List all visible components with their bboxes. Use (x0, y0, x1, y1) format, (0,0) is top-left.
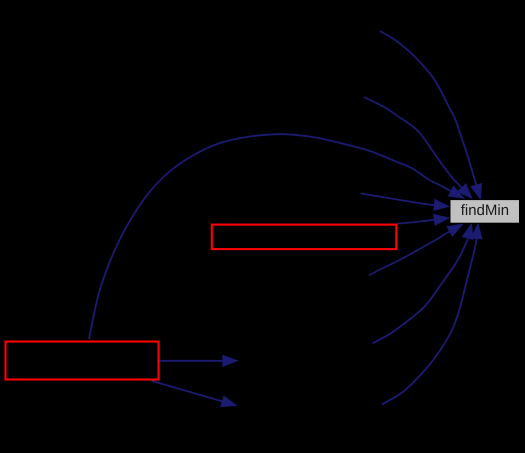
node findMin (450, 200, 520, 224)
wire edge box1 to findMin (89, 134, 451, 339)
wire edge node1 to findMin (380, 31, 476, 185)
wire edge node4 to findMin (369, 232, 450, 276)
arrowhead edge node1 to findMin (471, 183, 482, 199)
arrowhead edge node4 to findMin (447, 224, 463, 236)
arrowhead edge box1 to findMin (448, 186, 464, 198)
wire edge node6 to findMin (382, 239, 477, 405)
wire edge box1 to node7 (160, 360, 223, 362)
arrowhead edge box1 to node8 (221, 396, 237, 407)
arrowhead edge node6 to findMin (471, 224, 482, 239)
wire edge node3 to findMin (361, 193, 435, 205)
node box2 (red, middle) (212, 225, 396, 250)
wire edge box2 to findMin (397, 220, 435, 224)
wire edge node5 to findMin (373, 238, 468, 343)
node box1 (red, bottom-left) (6, 342, 159, 380)
arrowhead edge node2 to findMin (458, 184, 472, 199)
arrowhead edge node3 to findMin (434, 199, 449, 210)
arrowhead edge box2 to findMin (434, 214, 449, 225)
wire edge node2 to findMin (364, 97, 462, 188)
wire edge box1 to node8 (152, 381, 223, 402)
arrowhead edge node5 to findMin (462, 224, 473, 240)
arrowhead edge box1 to node7 (223, 355, 238, 366)
